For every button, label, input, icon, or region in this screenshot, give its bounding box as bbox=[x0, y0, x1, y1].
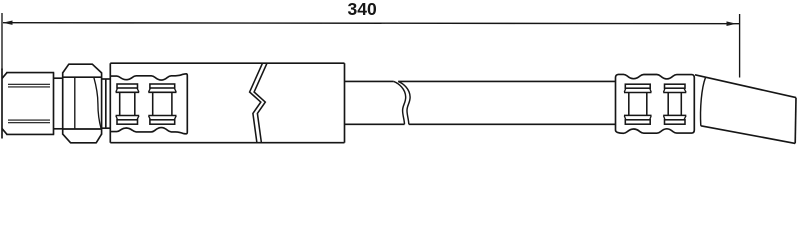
left ferrule crimp profile top bbox=[110, 74, 187, 134]
hose tube bottom edge bbox=[345, 123, 616, 125]
extension line right bbox=[739, 14, 741, 78]
arrowhead right bbox=[727, 21, 737, 26]
hex nut corner curve bbox=[94, 77, 101, 129]
angled end bend arc bbox=[701, 78, 706, 126]
bobbin 1 right bbox=[624, 84, 652, 124]
socket thread lines bbox=[8, 84, 50, 122]
hose tube top edge bbox=[345, 80, 616, 82]
female socket body bbox=[2, 69, 54, 139]
bobbin 2 left bbox=[148, 84, 176, 124]
break symbol sleeve bbox=[250, 63, 267, 143]
arrowhead left bbox=[3, 21, 13, 25]
break symbol tube bbox=[394, 81, 410, 124]
angled end face bbox=[794, 98, 797, 144]
svg-text:340: 340 bbox=[348, 0, 377, 19]
right ferrule crimp outline bbox=[616, 74, 695, 133]
collar between nut and sleeve bbox=[102, 79, 111, 128]
angled end hose top edge bbox=[695, 75, 796, 98]
extension line left bbox=[1, 13, 3, 70]
dimension line bbox=[3, 23, 740, 24]
bobbin 2 right bbox=[663, 84, 686, 124]
bobbin 1 left bbox=[116, 84, 140, 124]
hex nut bbox=[63, 64, 102, 143]
angled end hose bottom edge bbox=[701, 126, 795, 144]
hex nut flat edge line bbox=[74, 77, 76, 129]
neck bbox=[54, 78, 64, 129]
sleeve rectangle bbox=[110, 63, 344, 143]
